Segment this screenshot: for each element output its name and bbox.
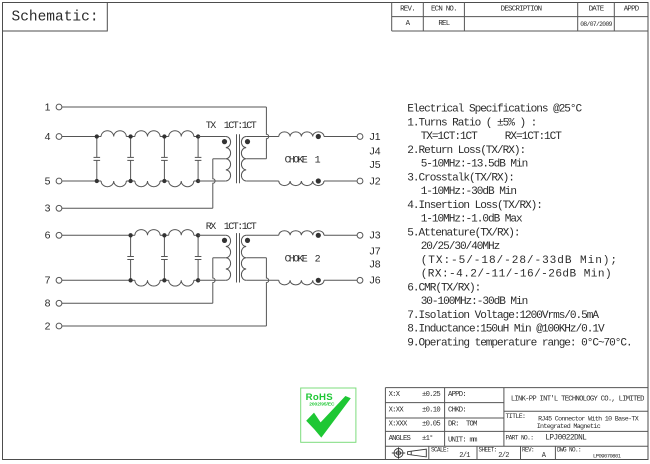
transformer RX secondary phase dot <box>245 238 250 243</box>
inductor TX-filter bottom section 2 <box>131 181 165 187</box>
svg-text:1-10MHz:-30dB Min: 1-10MHz:-30dB Min <box>421 186 517 198</box>
svg-text:UNIT: mm: UNIT: mm <box>448 436 477 444</box>
wire pin1 to TX secondary center tap <box>62 107 269 159</box>
choke CHOKE 2 top winding <box>246 231 357 236</box>
wire pin3 to TX primary center tap <box>62 159 226 209</box>
svg-text:LINK-PP INT'L TECHNOLOGY CO.,: LINK-PP INT'L TECHNOLOGY CO., LIMITED <box>511 396 644 404</box>
svg-text:±0.10: ±0.10 <box>422 406 440 414</box>
svg-text:DR: TOM: DR: TOM <box>448 421 477 429</box>
transformer TX secondary phase dot <box>245 139 250 144</box>
wire pin4 to filter ladder top <box>62 136 97 138</box>
transformer RX secondary winding <box>241 235 246 280</box>
svg-text:SHEET:: SHEET: <box>479 446 497 453</box>
inductor RX-filter bottom section 2 <box>164 280 198 286</box>
transformer TX primary phase dot <box>222 139 227 144</box>
pin 5 <box>45 175 62 187</box>
inductor RX-filter top section 2 <box>164 230 198 236</box>
node TX-filter bottom junction 4 <box>196 179 200 183</box>
svg-text:5: 5 <box>45 175 51 187</box>
electrical specifications text block <box>407 104 631 350</box>
svg-text:(RX:-4.2/-11/-16/-26dB Min): (RX:-4.2/-11/-16/-26dB Min) <box>421 269 612 281</box>
pin 1 <box>45 101 62 113</box>
svg-text:RoHS: RoHS <box>306 392 334 403</box>
svg-text:DESCRIPTION: DESCRIPTION <box>501 6 542 14</box>
choke CHOKE 1 top winding <box>246 132 357 137</box>
wire ladder to RX primary bottom <box>198 279 226 281</box>
svg-text:1.Turns Ratio ( ±5% ) :: 1.Turns Ratio ( ±5% ) : <box>407 117 536 129</box>
svg-text:2: 2 <box>45 320 51 332</box>
choke CHOKE 1 top phase dot <box>316 134 321 139</box>
svg-text:TITLE:: TITLE: <box>506 413 526 420</box>
node RX-filter bottom junction 2 <box>162 278 166 282</box>
revision table <box>392 2 648 31</box>
inductor RX-filter bottom section 1 <box>131 280 165 286</box>
svg-text:±0.25: ±0.25 <box>422 391 440 399</box>
node TX-filter top junction 4 <box>196 134 200 138</box>
wire pin8 to RX primary center tap <box>62 258 226 304</box>
svg-text:8: 8 <box>45 298 51 310</box>
svg-text:A: A <box>542 452 547 460</box>
svg-text:8.Inductance:150uH Min @100KHz: 8.Inductance:150uH Min @100KHz/0.1V <box>407 324 605 336</box>
capacitor RX-filter C2 <box>161 235 168 280</box>
pin 4 <box>45 131 62 143</box>
wire pin5 to filter ladder bottom <box>62 180 97 182</box>
svg-text:CHOKE 2: CHOKE 2 <box>285 255 321 266</box>
svg-text:J5: J5 <box>370 159 381 171</box>
svg-text:J6: J6 <box>370 275 381 287</box>
svg-text:J4: J4 <box>370 145 381 157</box>
svg-text:7.Isolation Voltage:1200Vrms/0: 7.Isolation Voltage:1200Vrms/0.5mA <box>407 310 599 322</box>
svg-text:(TX:-5/-18/-28/-33dB Min);: (TX:-5/-18/-28/-33dB Min); <box>421 255 618 267</box>
svg-text:Electrical Specifications @25°: Electrical Specifications @25°C <box>407 104 582 116</box>
connector J6 output circle <box>357 277 363 283</box>
wire ladder to TX primary bottom <box>198 180 226 182</box>
svg-text:CHOKE 1: CHOKE 1 <box>285 156 321 167</box>
svg-text:4.Insertion Loss(TX/RX):: 4.Insertion Loss(TX/RX): <box>407 200 542 212</box>
capacitor TX-filter C1 <box>94 137 101 182</box>
third-angle projection symbol <box>392 447 427 458</box>
svg-text:30-100MHz:-30dB Min: 30-100MHz:-30dB Min <box>421 296 528 308</box>
capacitor TX-filter C2 <box>127 137 134 182</box>
pin 8 <box>45 298 62 310</box>
svg-text:±0.05: ±0.05 <box>422 421 440 429</box>
node RX-filter top junction 1 <box>128 233 132 237</box>
transformer RX core <box>237 233 240 282</box>
svg-text:RX 1CT:1CT: RX 1CT:1CT <box>206 222 257 233</box>
svg-text:6.CMR(TX/RX):: 6.CMR(TX/RX): <box>407 282 480 294</box>
svg-text:A: A <box>406 20 411 28</box>
inductor TX-filter bottom section 1 <box>97 181 131 187</box>
node RX-filter top junction 2 <box>162 233 166 237</box>
svg-text:CHKD:: CHKD: <box>448 406 466 414</box>
capacitor RX-filter C3 <box>195 235 202 280</box>
inductor TX-filter bottom section 3 <box>164 181 198 187</box>
choke CHOKE 1 bottom phase dot <box>316 178 321 183</box>
svg-text:6: 6 <box>45 230 51 242</box>
svg-text:2/2: 2/2 <box>498 452 509 460</box>
svg-text:1: 1 <box>45 101 51 113</box>
svg-text:±1°: ±1° <box>422 434 433 443</box>
svg-text:2.Return Loss(TX/RX):: 2.Return Loss(TX/RX): <box>407 145 525 157</box>
svg-text:7: 7 <box>45 275 51 287</box>
svg-text:Integrated Magnetic: Integrated Magnetic <box>537 423 601 431</box>
pin 7 <box>45 275 62 287</box>
node RX-filter bottom junction 1 <box>128 278 132 282</box>
transformer TX primary winding <box>226 137 231 181</box>
svg-text:J7: J7 <box>370 246 381 258</box>
inductor TX-filter top section 3 <box>164 131 198 137</box>
svg-text:X:XX: X:XX <box>389 406 405 414</box>
inductor TX-filter top section 1 <box>97 131 131 137</box>
svg-text:Schematic:: Schematic: <box>12 10 99 26</box>
transformer RX primary winding <box>226 235 231 280</box>
node RX-filter top junction 3 <box>196 233 200 237</box>
choke CHOKE 2 bottom winding <box>246 280 357 285</box>
wire ladder to RX primary top <box>198 234 226 236</box>
svg-text:REV:: REV: <box>522 446 534 453</box>
svg-text:APPD:: APPD: <box>448 391 466 399</box>
node TX-filter top junction 3 <box>162 134 166 138</box>
node TX-filter top junction 1 <box>95 134 99 138</box>
connector J3 output circle <box>357 232 363 238</box>
svg-text:LPJ0022DNL: LPJ0022DNL <box>545 434 587 442</box>
inductor RX-filter top section 1 <box>131 230 165 236</box>
capacitor RX-filter C1 <box>127 235 134 280</box>
schematic title box <box>3 3 108 32</box>
title block <box>385 388 648 460</box>
svg-text:J3: J3 <box>370 230 381 242</box>
svg-text:5.Attenature(TX/RX):: 5.Attenature(TX/RX): <box>407 227 519 239</box>
svg-text:20/25/30/40MHz: 20/25/30/40MHz <box>421 241 500 253</box>
svg-text:5-10MHz:-13.5dB Min: 5-10MHz:-13.5dB Min <box>421 159 528 171</box>
svg-text:REV.: REV. <box>400 6 415 14</box>
node RX-filter bottom junction 3 <box>196 278 200 282</box>
node TX-filter top junction 2 <box>128 134 132 138</box>
pin 2 <box>45 320 62 332</box>
svg-text:ECN NO.: ECN NO. <box>431 6 457 14</box>
transformer TX core <box>237 134 240 183</box>
transformer RX primary phase dot <box>222 238 227 243</box>
svg-text:LP09070801: LP09070801 <box>593 453 622 460</box>
wire pin7 to RX filter ladder bottom <box>62 279 131 281</box>
svg-text:X:X: X:X <box>389 391 401 399</box>
connector J1 output circle <box>357 134 363 140</box>
connector J2 output circle <box>357 178 363 184</box>
pin 3 <box>45 203 62 215</box>
svg-text:J1: J1 <box>370 131 381 143</box>
choke CHOKE 2 bottom phase dot <box>316 278 321 283</box>
svg-text:2/1: 2/1 <box>459 452 470 460</box>
transformer TX secondary winding <box>241 137 246 181</box>
svg-text:X:XXX: X:XXX <box>389 421 408 429</box>
svg-text:DATE: DATE <box>589 6 605 14</box>
svg-text:REL: REL <box>438 20 449 28</box>
pin 6 <box>45 230 62 242</box>
wire pin6 to RX filter ladder top <box>62 234 131 236</box>
node TX-filter bottom junction 3 <box>162 179 166 183</box>
svg-text:SCALE:: SCALE: <box>431 446 449 453</box>
capacitor TX-filter C4 <box>195 137 202 182</box>
capacitor TX-filter C3 <box>161 137 168 182</box>
svg-text:J2: J2 <box>370 175 381 187</box>
node TX-filter bottom junction 2 <box>128 179 132 183</box>
node TX-filter bottom junction 1 <box>95 179 99 183</box>
svg-text:08/07/2009: 08/07/2009 <box>580 21 612 28</box>
svg-text:4: 4 <box>45 131 51 143</box>
inductor TX-filter top section 2 <box>131 131 165 137</box>
svg-text:APPD: APPD <box>624 6 640 14</box>
svg-text:DWG NO.:: DWG NO.: <box>557 446 581 453</box>
svg-text:J8: J8 <box>370 259 381 271</box>
wire pin2 to RX secondary center tap <box>62 258 269 326</box>
svg-text:PART NO.:: PART NO.: <box>506 434 534 441</box>
svg-text:TX 1CT:1CT: TX 1CT:1CT <box>206 121 257 132</box>
svg-text:ANGLES: ANGLES <box>389 435 411 443</box>
svg-text:2002/95/EC: 2002/95/EC <box>309 401 335 407</box>
choke CHOKE 2 top phase dot <box>316 233 321 238</box>
choke CHOKE 1 bottom winding <box>246 181 357 186</box>
svg-text:3: 3 <box>45 203 51 215</box>
svg-text:TX=1CT:1CT RX=1CT:1CT: TX=1CT:1CT RX=1CT:1CT <box>421 131 563 143</box>
svg-text:1-10MHz:-1.0dB Max: 1-10MHz:-1.0dB Max <box>421 214 523 226</box>
svg-text:9.Operating temperature range:: 9.Operating temperature range: 0°C~70°C. <box>407 337 631 349</box>
RoHS logo <box>301 388 356 442</box>
wire ladder to TX primary top <box>198 136 226 138</box>
svg-text:3.Crosstalk(TX/RX):: 3.Crosstalk(TX/RX): <box>407 172 514 184</box>
